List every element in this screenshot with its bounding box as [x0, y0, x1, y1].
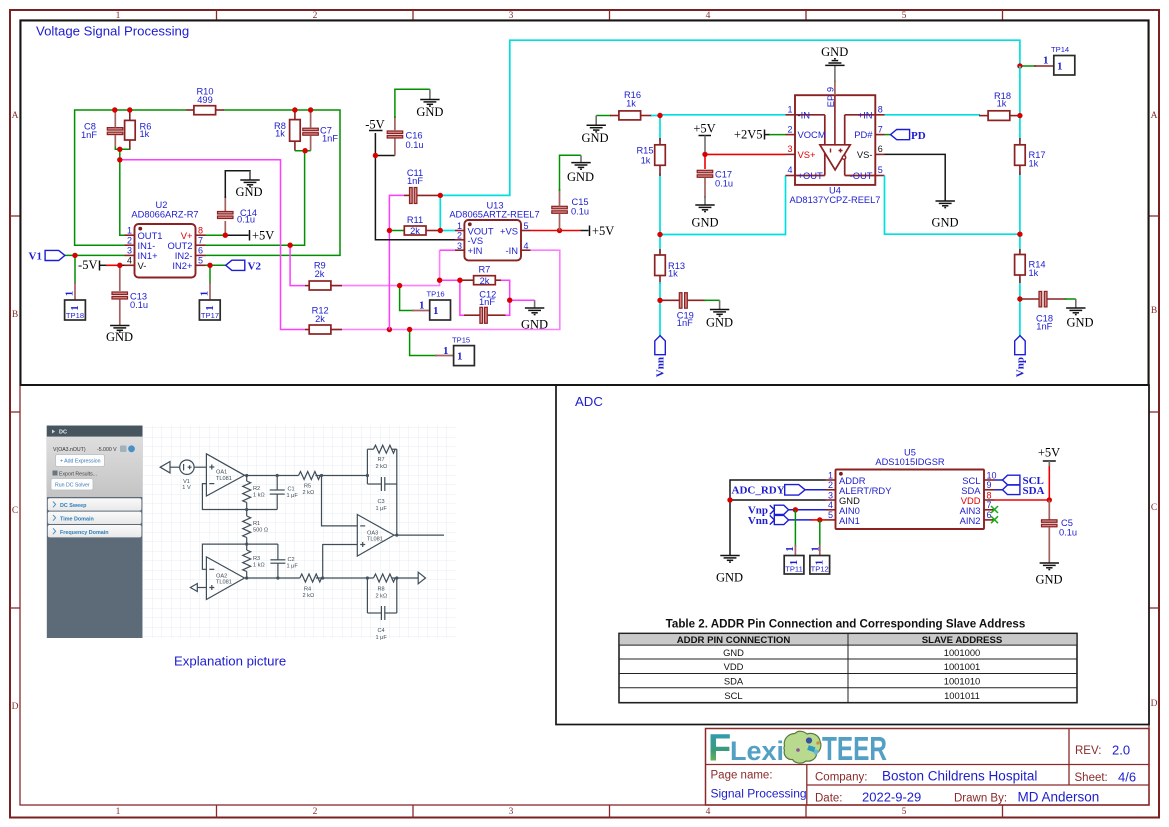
wire: ADDR/GND to ground [730, 480, 826, 555]
svg-text:9: 9 [826, 87, 836, 92]
svg-text:1: 1 [433, 305, 439, 317]
wire: R7/C12 branch vertical [440, 280, 464, 315]
svg-text:REV:: REV: [1075, 745, 1101, 757]
wire: C14 vertical [224, 221, 226, 235]
svg-text:1nF: 1nF [407, 176, 423, 186]
OA2 output wire [245, 577, 300, 579]
svg-text:6: 6 [878, 144, 883, 154]
svg-text:EP: EP [825, 95, 836, 108]
svg-text:GND: GND [716, 571, 743, 585]
feedback loop R7 [366, 449, 368, 484]
svg-text:1: 1 [457, 351, 463, 363]
wire: magenta OUT1 to R12 [120, 160, 305, 330]
resistor R8 [274, 110, 300, 151]
Voltage Signal Processing section box [21, 21, 1149, 386]
ground above C16 [395, 89, 444, 119]
svg-text:R7: R7 [478, 264, 490, 274]
resistor R3 [246, 544, 248, 550]
power +5V at U2 pin8 [250, 229, 275, 243]
svg-text:C: C [1151, 503, 1157, 513]
svg-text:Table 2. ADDR Pin Connection a: Table 2. ADDR Pin Connection and Corresp… [666, 618, 1026, 631]
svg-text:ADS1015IDGSR: ADS1015IDGSR [875, 457, 945, 467]
power +5V at C17 [693, 122, 715, 155]
svg-text:F: F [708, 728, 731, 770]
wire: IN1- loop left [75, 110, 186, 245]
svg-text:1 kΩ: 1 kΩ [253, 562, 265, 568]
svg-text:1k: 1k [668, 269, 678, 279]
svg-text:B: B [12, 310, 18, 320]
canvas background [142, 426, 455, 638]
svg-text:2: 2 [828, 480, 833, 490]
svg-text:TL081: TL081 [216, 476, 232, 482]
svg-text:2k: 2k [410, 226, 420, 236]
resistor R14 [1015, 249, 1046, 283]
svg-text:1 V: 1 V [182, 485, 191, 491]
svg-text:2: 2 [457, 231, 462, 241]
wire: R13 to Vnn cyan [659, 282, 661, 336]
svg-text:1nF: 1nF [322, 133, 338, 143]
capacitor C5 [1042, 500, 1078, 563]
svg-text:7: 7 [878, 124, 883, 134]
svg-text:4: 4 [706, 807, 711, 817]
svg-text:2k: 2k [315, 314, 325, 324]
svg-text:Signal Processing: Signal Processing [711, 787, 807, 801]
svg-text:GND: GND [931, 216, 958, 230]
svg-text:Page name:: Page name: [711, 770, 773, 782]
svg-text:500 Ω: 500 Ω [253, 528, 268, 534]
svg-text:1: 1 [199, 291, 211, 297]
svg-text:ADC_RDY: ADC_RDY [732, 485, 785, 497]
svg-text:1: 1 [64, 291, 76, 297]
svg-text:1 μF: 1 μF [287, 564, 299, 570]
svg-text:5: 5 [524, 221, 529, 231]
test point TP14 [1043, 45, 1075, 75]
svg-text:B: B [1151, 306, 1157, 316]
power +5V ADC [1038, 446, 1060, 467]
svg-text:C1: C1 [288, 487, 295, 493]
svg-text:5: 5 [828, 510, 833, 520]
svg-text:D: D [12, 702, 19, 712]
svg-text:TL081: TL081 [216, 580, 232, 586]
power +5V right of U13 [590, 224, 615, 238]
svg-text:1: 1 [1057, 61, 1063, 73]
wire: TP15 branch [410, 330, 437, 356]
svg-text:+5V: +5V [693, 122, 715, 136]
svg-text:AD8065ARTZ-REEL7: AD8065ARTZ-REEL7 [449, 210, 539, 220]
capacitor C4 below R8 [366, 578, 368, 613]
svg-text:1k: 1k [997, 99, 1007, 109]
svg-text:0.1u: 0.1u [571, 207, 589, 217]
wire: -5V to C16 and U13 -VS [375, 133, 395, 156]
svg-text:7: 7 [987, 500, 992, 510]
wire: +VS to +5V red [531, 230, 581, 232]
svg-text:Lexi: Lexi [730, 736, 784, 766]
capacitor C1 [276, 476, 278, 491]
op-amp OA2 [206, 557, 244, 600]
svg-text:2: 2 [127, 236, 132, 246]
svg-text:1: 1 [69, 305, 81, 311]
svg-text:Boston Childrens Hospital: Boston Childrens Hospital [882, 769, 1037, 784]
wire: cyan C11 row to top bus [440, 40, 1020, 195]
ground right of C18 [1065, 299, 1094, 330]
ADC section box [556, 385, 1149, 725]
svg-text:GND: GND [821, 45, 848, 59]
svg-text:1nF: 1nF [677, 318, 693, 328]
global label Vnn (ADC) [748, 515, 826, 527]
wire to OA3 plus [323, 545, 358, 579]
output arrow [418, 572, 425, 584]
svg-text:TP15: TP15 [452, 336, 470, 345]
capacitor C11 [404, 168, 440, 204]
wire: VDD to +5V and C5 [995, 463, 1050, 500]
global label Vnp [1015, 336, 1027, 378]
svg-text:V2: V2 [248, 260, 262, 272]
svg-text:+5V: +5V [592, 224, 614, 238]
svg-text:Explanation picture: Explanation picture [174, 654, 286, 669]
svg-text:+VS: +VS [500, 225, 518, 236]
op-amp OA3 [357, 515, 394, 557]
svg-text:GND: GND [581, 131, 608, 145]
global label ADC_RDY [732, 485, 826, 497]
ground below C13 [106, 326, 133, 345]
wire: R18 column cyan [1019, 66, 1021, 141]
ADC U5 ADS1015IDGSR [826, 448, 997, 530]
svg-text:-IN: -IN [506, 245, 519, 256]
OA3 output [394, 534, 444, 536]
svg-text:2022-9-29: 2022-9-29 [862, 790, 921, 805]
svg-text:1nF: 1nF [1036, 322, 1052, 332]
svg-text:GND: GND [706, 316, 733, 330]
ground below VS- [931, 201, 958, 230]
svg-text:GND: GND [1066, 316, 1093, 330]
capacitor C16 [387, 116, 423, 156]
svg-text:R11: R11 [407, 215, 423, 225]
svg-text:1k: 1k [140, 129, 150, 139]
svg-text:8: 8 [198, 226, 203, 236]
wire: TP14 branch [1020, 65, 1036, 67]
ground right of C19 [704, 300, 733, 329]
svg-text:VS-: VS- [857, 149, 873, 160]
capacitor C17 [697, 170, 733, 199]
ground below C17 [691, 196, 718, 230]
svg-text:1: 1 [443, 345, 449, 357]
svg-text:V-: V- [138, 260, 147, 271]
svg-text:1nF: 1nF [479, 297, 495, 307]
svg-text:1: 1 [810, 546, 822, 552]
logo FLexiTEER [708, 728, 887, 770]
svg-text:OA2: OA2 [216, 573, 227, 579]
svg-text:R7: R7 [378, 457, 385, 463]
svg-text:Drawn By:: Drawn By: [954, 793, 1007, 805]
resistor R11 [404, 215, 440, 236]
capacitor C8 [81, 110, 123, 147]
svg-text:GND: GND [723, 647, 744, 658]
svg-text:R1: R1 [253, 521, 260, 527]
svg-text:MD Anderson: MD Anderson [1018, 790, 1100, 805]
global label SCL [995, 475, 1044, 487]
svg-text:OA3: OA3 [367, 530, 378, 536]
svg-text:Vnn: Vnn [748, 515, 768, 527]
svg-text:1: 1 [1043, 55, 1049, 67]
OA2 feedback rail [202, 544, 278, 569]
svg-text:2 kΩ: 2 kΩ [303, 593, 315, 599]
svg-text:7: 7 [198, 236, 203, 246]
svg-text:R15: R15 [636, 146, 653, 156]
power +2V5 at VOCM [734, 128, 786, 142]
ground below C5 [1035, 563, 1062, 587]
svg-text:R8: R8 [378, 587, 385, 593]
svg-text:U4: U4 [829, 186, 841, 196]
svg-text:1: 1 [787, 105, 792, 115]
capacitor C13 [112, 291, 148, 325]
OA1 feedback rail [202, 484, 277, 510]
svg-text:A: A [1151, 111, 1158, 121]
svg-text:U2: U2 [156, 200, 168, 210]
svg-text:VDD: VDD [724, 661, 744, 672]
resistor R17 [1015, 138, 1046, 175]
resistor R15 [636, 138, 665, 176]
wire: V+ pin8 to +5V [206, 234, 226, 236]
svg-text:1 μF: 1 μF [287, 493, 299, 499]
wire: R11 left green [389, 230, 404, 232]
resistor R7 [460, 264, 501, 286]
svg-text:VOCM: VOCM [798, 129, 826, 140]
resistor R13 [655, 249, 685, 284]
svg-text:A: A [12, 111, 19, 121]
wire: C13 drop [119, 265, 121, 291]
fully differential amp U4 AD8137YCPZ-REEL7 [786, 81, 885, 206]
power -5V at C16 [365, 118, 384, 132]
wire: R9 output net magenta [325, 250, 440, 285]
svg-text:SLAVE ADDRESS: SLAVE ADDRESS [922, 635, 1003, 646]
svg-text:TP11: TP11 [785, 565, 803, 574]
svg-text:1: 1 [127, 226, 132, 236]
junction dots R15/R13 column [657, 113, 662, 118]
ground left of R16 [581, 116, 608, 146]
svg-text:R2: R2 [253, 486, 260, 492]
ground left ADC [716, 556, 743, 585]
svg-text:Vnn: Vnn [655, 357, 667, 377]
svg-text:-5V: -5V [78, 258, 97, 272]
capacitor C19 [660, 293, 706, 328]
svg-text:499: 499 [197, 95, 213, 105]
svg-text:2k: 2k [315, 269, 325, 279]
svg-text:GND: GND [1035, 573, 1062, 587]
svg-text:C2: C2 [288, 557, 295, 563]
svg-text:DC Sweep: DC Sweep [60, 503, 87, 509]
capacitor C15 [552, 189, 589, 231]
global label Vnp (ADC) [748, 505, 826, 517]
wire: TP16 branch [400, 286, 414, 311]
test point TP16 [419, 290, 451, 321]
sidebar [47, 426, 143, 638]
svg-text:-OUT: -OUT [850, 170, 873, 181]
resistor R10 [186, 87, 224, 115]
svg-text:TP18: TP18 [66, 311, 84, 320]
resistor R5 [299, 472, 321, 480]
svg-text:10: 10 [987, 470, 997, 480]
no-connect crosses pins 7,6 [991, 506, 998, 513]
svg-text:ADDR PIN CONNECTION: ADDR PIN CONNECTION [677, 635, 791, 646]
svg-text:TP12: TP12 [811, 565, 829, 574]
svg-text:GND: GND [235, 185, 262, 199]
svg-text:SCL: SCL [724, 690, 742, 701]
svg-text:0.1u: 0.1u [1059, 528, 1077, 538]
test point TP11 [784, 546, 804, 574]
svg-text:+OUT: +OUT [798, 170, 824, 181]
wire: -OUT net cyan [885, 176, 1020, 235]
svg-text:2 kΩ: 2 kΩ [376, 593, 388, 599]
svg-text:+IN: +IN [468, 245, 483, 256]
svg-text:V(OA3.nOUT): V(OA3.nOUT) [53, 447, 86, 453]
svg-text:3: 3 [127, 246, 132, 256]
node dots [245, 474, 398, 580]
resistor R16 [610, 90, 652, 120]
svg-text:4: 4 [524, 241, 529, 251]
svg-text:AIN2: AIN2 [960, 515, 981, 526]
svg-text:+5V: +5V [1038, 446, 1060, 460]
svg-text:-5V: -5V [365, 118, 384, 132]
svg-text:2k: 2k [480, 276, 490, 286]
junction dots R9/R12 nets [287, 243, 292, 248]
svg-text:C15: C15 [572, 197, 589, 207]
global label V1 [29, 250, 65, 262]
svg-text:GND: GND [521, 318, 548, 332]
svg-text:TP16: TP16 [427, 290, 445, 299]
OA2 input arrow [190, 584, 197, 592]
wire: VS+ red [705, 153, 786, 155]
test point TP12 [810, 546, 830, 574]
wire: TP11 drop [794, 510, 796, 547]
svg-text:SDA: SDA [724, 675, 744, 686]
svg-text:1k: 1k [1029, 159, 1039, 169]
svg-text:GND: GND [567, 170, 594, 184]
svg-text:C3: C3 [378, 499, 385, 505]
svg-text:R5: R5 [304, 484, 311, 490]
svg-text:Run DC Solver: Run DC Solver [55, 483, 90, 489]
junction dot C14/+5V [223, 233, 228, 238]
svg-text:1k: 1k [275, 129, 285, 139]
svg-text:4/6: 4/6 [1118, 770, 1136, 785]
svg-text:GND: GND [691, 216, 718, 230]
svg-text:5: 5 [878, 165, 883, 175]
capacitor C2 [277, 544, 279, 560]
wire: R7 right to C12 right / GND [500, 280, 510, 315]
wire: TP12 drop [819, 520, 821, 547]
svg-text:0.1u: 0.1u [130, 300, 148, 310]
svg-text:5: 5 [902, 807, 907, 817]
svg-text:1: 1 [116, 807, 121, 817]
svg-text:8: 8 [987, 490, 992, 500]
svg-text:-IN: -IN [798, 109, 811, 120]
svg-text:ADC: ADC [575, 394, 603, 409]
svg-text:D: D [1151, 699, 1158, 709]
svg-text:1001000: 1001000 [944, 647, 981, 658]
svg-text:Frequency Domain: Frequency Domain [60, 530, 109, 536]
Table 2 [619, 618, 1077, 703]
capacitor C7 [303, 110, 339, 151]
svg-text:1: 1 [828, 470, 833, 480]
ground right of C12 [521, 300, 548, 331]
title block [706, 729, 1150, 806]
ground above U4 EP [821, 45, 848, 82]
op-amp OA1 [206, 454, 244, 496]
wire: top rail right of R10 [206, 110, 341, 255]
svg-text:1: 1 [204, 305, 216, 311]
wire: V1 to IN1+ [65, 254, 125, 256]
svg-text:TEER: TEER [822, 730, 887, 767]
resistor R1 [246, 510, 248, 517]
source V1 [180, 460, 194, 474]
svg-text:1 μF: 1 μF [376, 506, 388, 512]
svg-text:4: 4 [787, 165, 792, 175]
svg-text:PD#: PD# [854, 129, 873, 140]
svg-text:C5: C5 [1061, 518, 1073, 528]
svg-text:U5: U5 [904, 448, 916, 458]
svg-text:GND: GND [416, 105, 443, 119]
test point TP15 [443, 336, 474, 366]
svg-text:+5V: +5V [252, 229, 274, 243]
junction dots C11/R11 [438, 193, 443, 198]
svg-text:1: 1 [457, 221, 462, 231]
svg-text:TP17: TP17 [201, 311, 219, 320]
svg-text:GND: GND [106, 330, 133, 344]
wire: magenta pin7 junction down to R9 [290, 245, 305, 285]
svg-text:1: 1 [784, 546, 796, 552]
svg-text:1001011: 1001011 [944, 690, 980, 701]
svg-text:C: C [12, 506, 18, 516]
svg-text:+IN: +IN [858, 109, 873, 120]
wire: cyan C11-R11 link and VOUT [439, 195, 441, 230]
global label SDA [995, 485, 1045, 497]
svg-text:0.1u: 0.1u [237, 215, 255, 225]
svg-text:Date:: Date: [815, 793, 843, 805]
svg-text:3: 3 [457, 241, 462, 251]
svg-text:6: 6 [198, 246, 203, 256]
svg-text:2 kΩ: 2 kΩ [376, 464, 388, 470]
wire: magenta C11 column [389, 195, 404, 329]
svg-text:SDA: SDA [1023, 485, 1045, 497]
wire: VS- to GND [885, 154, 946, 201]
wire: U2 feedback top rail (OUT? net) green [120, 149, 125, 235]
svg-text:4: 4 [127, 256, 132, 266]
svg-text:DC: DC [59, 430, 67, 436]
svg-text:3: 3 [509, 807, 514, 817]
resistor R6 [125, 110, 152, 149]
wire: U13 +IN pin3 magenta [440, 249, 455, 251]
svg-text:+ Add Expression: + Add Expression [60, 459, 101, 465]
wire: R15 column cyan [659, 116, 661, 142]
wire: OUT2 net pin7 [206, 151, 305, 246]
svg-text:AD8066ARZ-R7: AD8066ARZ-R7 [131, 210, 198, 220]
svg-text:R3: R3 [253, 556, 260, 562]
svg-text:0.1u: 0.1u [715, 179, 733, 189]
svg-text:AD8137YCPZ-REEL7: AD8137YCPZ-REEL7 [790, 195, 881, 205]
capacitor C18 [1020, 291, 1067, 331]
svg-text:1 kΩ: 1 kΩ [253, 493, 265, 499]
svg-text:8: 8 [878, 105, 883, 115]
svg-text:OA1: OA1 [216, 470, 227, 476]
resistor R12 [305, 306, 342, 335]
source input arrow [160, 462, 170, 473]
global label Vnn [655, 336, 667, 378]
svg-text:1001001: 1001001 [944, 661, 981, 672]
resistor R18 [979, 91, 1020, 120]
global label PD [885, 130, 926, 142]
wire: V2 to IN2+ [206, 264, 226, 266]
capacitor C3 [367, 483, 381, 485]
svg-text:2: 2 [313, 807, 318, 817]
